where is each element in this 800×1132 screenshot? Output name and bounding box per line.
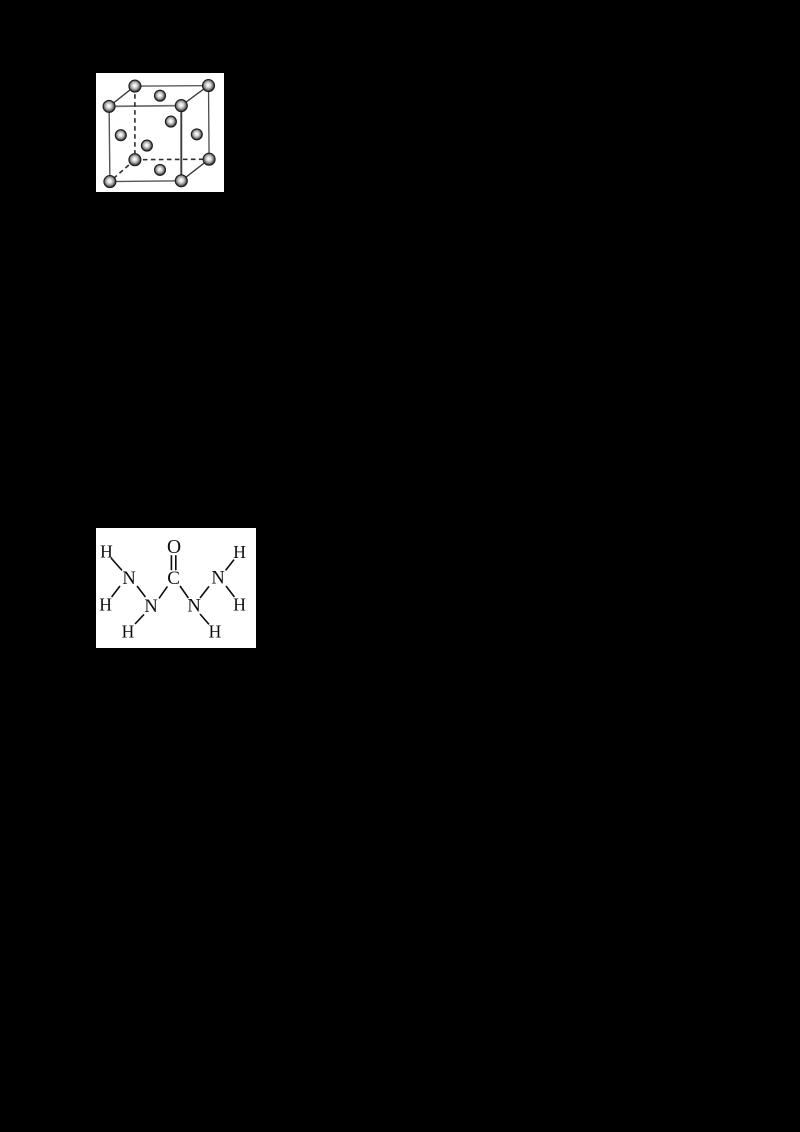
svg-text:N: N	[187, 597, 200, 617]
svg-text:H: H	[99, 595, 112, 615]
wire: connector B-F	[181, 86, 208, 106]
wire: dashed hidden vertical E-G	[134, 86, 136, 160]
svg-text:N: N	[122, 569, 135, 589]
figure 1: FCC unit cell	[96, 73, 224, 192]
svg-text:H: H	[233, 542, 246, 562]
wire: connector D-H	[181, 159, 209, 181]
node: face-center sphere left	[115, 130, 126, 141]
bond N(lb)-C	[159, 586, 167, 598]
bond C=O double line right	[175, 555, 177, 570]
wire: back right vertical F-H	[208, 86, 211, 160]
wire: front right vertical B-D	[180, 106, 182, 181]
bond N(rt)-H(tr)	[226, 560, 234, 571]
svg-text:H: H	[233, 595, 246, 615]
node: face-center sphere right	[191, 129, 202, 140]
wire: top back edge E-F	[135, 85, 209, 88]
node: corner sphere bottom-back-left	[129, 154, 141, 166]
bond N(rb)-H(br)	[200, 614, 209, 624]
node: corner sphere bottom-front-right	[175, 175, 187, 187]
bond N(lb)-H(bl)	[135, 614, 144, 624]
node: face-center sphere front	[141, 140, 152, 151]
node: corner sphere top-back-right	[203, 80, 215, 92]
bond N(lt)-H(lm)	[112, 586, 120, 597]
node: face-center sphere back	[165, 116, 176, 127]
bond C-N(rb)	[180, 586, 188, 598]
node: corner sphere top-front-right	[175, 100, 187, 112]
node: corner sphere bottom-front-left	[104, 176, 116, 188]
bond N(rb)-N(rt)	[200, 586, 209, 598]
bond H(tl)-N(lt)	[111, 558, 122, 570]
node: face-center sphere bottom	[155, 164, 166, 175]
wire: bottom front edge C-D	[110, 180, 181, 183]
svg-text:H: H	[122, 622, 135, 642]
svg-text:H: H	[209, 622, 222, 642]
node: face-center sphere top	[155, 90, 166, 101]
svg-text:N: N	[211, 569, 224, 589]
svg-text:N: N	[144, 597, 157, 617]
bond N(rt)-H(rm)	[226, 586, 234, 597]
node: corner sphere bottom-back-right	[203, 153, 215, 165]
wire: front left vertical A-C	[108, 106, 111, 181]
node: corner sphere top-front-left	[103, 100, 115, 112]
node: corner sphere top-back-left	[129, 80, 141, 92]
figure 2: carbohydrazide structural formula	[96, 528, 256, 648]
wire: dashed hidden bottom back G-H	[135, 158, 209, 161]
bond C=O double line left	[170, 555, 172, 570]
svg-text:O: O	[167, 537, 181, 558]
bond N(lt)-N(lb)	[137, 586, 145, 597]
wire: connector A-E	[109, 86, 135, 106]
wire: dashed hidden connector G-C	[110, 160, 135, 182]
wire: top front edge A-B	[109, 105, 181, 108]
svg-text:C: C	[167, 568, 180, 589]
